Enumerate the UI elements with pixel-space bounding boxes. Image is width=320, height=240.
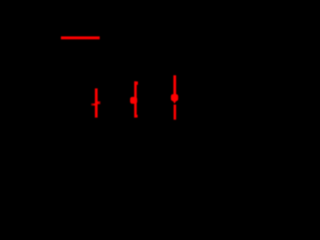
current dot at bottom of wire W3 <box>135 115 137 118</box>
current dot on wire W4 <box>171 94 178 101</box>
current dot (junction) on wire W3 <box>130 97 137 104</box>
wire W1 (horizontal net segment, top) <box>61 36 100 39</box>
wire W4 lower segment <box>174 105 177 120</box>
wire W3 (vertical net segment, middle) <box>134 81 137 117</box>
current dot at top of wire W3 <box>135 82 138 85</box>
current arrow on wire W2 <box>91 101 100 105</box>
wire W4 upper segment (vertical net segment, right) <box>173 75 176 100</box>
wire W2 (vertical net segment, left) <box>95 88 98 117</box>
current arrowhead on wire W4 <box>173 101 177 104</box>
